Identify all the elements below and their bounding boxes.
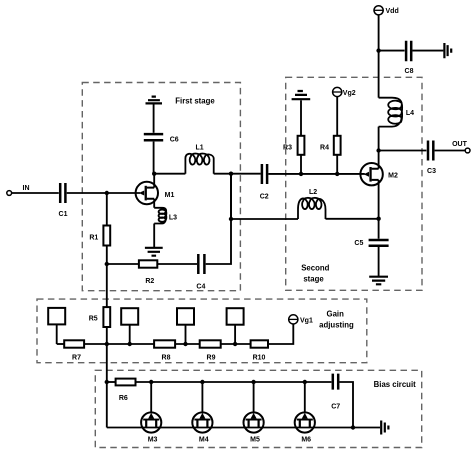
capacitor C6: [144, 134, 179, 143]
node A (input node): [105, 191, 109, 195]
svg-text:IN: IN: [23, 185, 30, 192]
capacitor C4: [196, 254, 205, 291]
wire C1 to M1 gate: [67, 192, 140, 194]
svg-text:Vg1: Vg1: [300, 317, 313, 324]
capacitor C5: [354, 240, 388, 247]
transistor M6: [295, 412, 315, 443]
ground (below C5): [369, 277, 388, 285]
node D (interstage node): [229, 172, 233, 176]
wire C7 down to rail: [340, 382, 354, 428]
wire C3 to OUT: [435, 150, 466, 152]
svg-text:C4: C4: [196, 284, 205, 291]
wire R5 down through gain wire to bias rail corner: [106, 327, 108, 428]
node L (S2 stub): [128, 342, 132, 346]
wire node G down to L4: [378, 51, 380, 98]
wire R1 to node B: [106, 246, 108, 265]
transistor M5: [244, 412, 264, 443]
ground (inverted, above R3): [292, 91, 311, 99]
svg-text:R2: R2: [145, 278, 154, 285]
gate stub M4: [201, 382, 203, 413]
svg-text:R8: R8: [162, 355, 171, 362]
svg-text:R10: R10: [253, 355, 266, 362]
capacitor C3: [427, 141, 436, 176]
wire R7 to R8: [84, 343, 154, 345]
node F (R4 bottom): [335, 172, 339, 176]
ground (rotated, right of C8): [444, 43, 451, 58]
wire R4 to gate line: [336, 155, 338, 174]
svg-text:L1: L1: [196, 145, 204, 152]
inductor L2: [298, 189, 326, 219]
wire node A down to R1: [106, 193, 108, 226]
wire Vdd down: [378, 15, 380, 51]
svg-text:R1: R1: [89, 235, 98, 242]
wire L1 to node D: [214, 173, 231, 175]
svg-text:M1: M1: [165, 192, 175, 199]
pad square S1: [48, 308, 65, 344]
terminal IN: [7, 185, 30, 195]
node T (C7 branch on rail): [351, 425, 355, 429]
resistor R1: [89, 226, 110, 246]
ground (rotated, bias rail end): [381, 421, 388, 435]
node B (R1 bottom / R2 left): [105, 262, 109, 266]
wire bias rail: [107, 427, 380, 429]
inductor L3: [154, 208, 177, 224]
node R (M5 gate): [251, 380, 255, 384]
gate stub M6: [304, 382, 306, 413]
svg-text:OUT: OUT: [452, 141, 468, 148]
node O (riser at bias wire): [105, 380, 109, 384]
wire node H to C3: [379, 150, 427, 152]
inductor L4: [379, 98, 415, 127]
svg-text:Vdd: Vdd: [386, 8, 399, 15]
wire gain row start: [57, 343, 64, 345]
resistor R5: [89, 307, 110, 327]
wire R2 to C4: [157, 263, 197, 265]
svg-text:L3: L3: [169, 215, 177, 222]
wire C2 to M2 gate: [268, 173, 365, 175]
transistor M3: [141, 412, 161, 443]
pad square S4: [227, 308, 244, 344]
node J (M2 source node): [376, 217, 380, 221]
node E (R3 bottom): [299, 172, 303, 176]
svg-text:M2: M2: [388, 173, 398, 180]
svg-text:R4: R4: [320, 145, 329, 152]
svg-text:Gain: Gain: [327, 310, 345, 319]
node N (S4 stub): [233, 342, 237, 346]
wire C5 to ground: [378, 247, 380, 276]
svg-text:R5: R5: [89, 316, 98, 323]
terminal Vdd: [374, 6, 399, 15]
wire node G to C8: [379, 50, 405, 52]
capacitor C7: [331, 374, 340, 411]
resistor R2: [139, 260, 157, 285]
transistor M2: [360, 151, 398, 219]
resistor R9: [200, 340, 221, 361]
svg-text:M3: M3: [148, 437, 158, 444]
gate stub M5: [253, 382, 255, 413]
resistor R3: [283, 136, 304, 155]
wire node B down to R5: [106, 264, 108, 307]
svg-text:R7: R7: [72, 355, 81, 362]
pad square S2: [121, 308, 138, 344]
node G (Vdd / C8 node): [376, 48, 380, 52]
transistor M4: [192, 412, 212, 443]
node C (M1 drain node): [152, 172, 156, 176]
node K (main riser on gain wire): [105, 342, 109, 346]
wire node I to L2: [231, 218, 298, 220]
svg-text:C8: C8: [405, 68, 414, 75]
svg-text:Bias circuit: Bias circuit: [374, 380, 416, 389]
first stage dashed box: [82, 83, 240, 291]
terminal OUT: [452, 141, 470, 153]
svg-text:First stage: First stage: [175, 97, 215, 106]
second stage dashed box: [286, 77, 422, 290]
wire L4 to drain node: [378, 127, 380, 151]
wire ground to R3: [300, 100, 302, 136]
svg-text:stage: stage: [303, 275, 324, 284]
wire node C to L1: [154, 173, 186, 175]
svg-text:adjusting: adjusting: [319, 321, 354, 330]
wire node J to C5: [378, 219, 380, 239]
node S (M6 gate): [303, 380, 307, 384]
ground (below L3): [145, 248, 163, 256]
svg-text:C1: C1: [59, 211, 68, 218]
svg-text:Vg2: Vg2: [343, 90, 356, 97]
wire C6 to drain node: [153, 142, 155, 174]
node I (L2 left node): [229, 217, 233, 221]
svg-text:M5: M5: [250, 437, 260, 444]
svg-text:C3: C3: [427, 168, 436, 175]
svg-text:L4: L4: [406, 110, 414, 117]
resistor R7: [64, 340, 84, 361]
wire Vg2 to R4: [336, 97, 338, 136]
terminal Vg2: [333, 87, 356, 97]
svg-text:C6: C6: [170, 137, 179, 144]
svg-text:R6: R6: [119, 395, 128, 402]
capacitor C2: [260, 164, 269, 201]
svg-text:M6: M6: [301, 437, 311, 444]
capacitor C8: [405, 41, 414, 75]
svg-text:Second: Second: [301, 264, 329, 273]
resistor R8: [154, 340, 175, 361]
wire node B to R2: [107, 263, 139, 265]
wire node D down to L2: [230, 174, 232, 219]
wire L3 to ground: [153, 224, 155, 248]
pad square S3: [177, 308, 194, 344]
node M (S3 stub): [183, 342, 187, 346]
transistor M1: [136, 174, 175, 208]
capacitor C1: [59, 183, 68, 218]
resistor R4: [320, 136, 341, 155]
wire R9 to R10: [221, 343, 251, 345]
wire bias start to R6: [107, 381, 116, 383]
wire R8 to R9: [175, 343, 200, 345]
ground (inverted, above C6): [146, 97, 163, 104]
inductor L1: [185, 145, 213, 174]
wire R6 to C7: [136, 381, 332, 383]
gate stub M3: [150, 382, 152, 413]
wire R3 to gate line: [300, 155, 302, 174]
svg-text:C5: C5: [354, 240, 363, 247]
svg-text:M4: M4: [199, 437, 209, 444]
node H (M2 drain node): [376, 148, 380, 152]
node P (M3 gate): [149, 380, 153, 384]
bias circuit dashed box: [95, 370, 421, 447]
wire node D to C2: [231, 173, 261, 175]
svg-text:R9: R9: [207, 355, 216, 362]
svg-text:L2: L2: [309, 189, 317, 196]
svg-text:C2: C2: [260, 194, 269, 201]
gain adjusting dashed box: [37, 299, 367, 363]
resistor R10: [251, 340, 268, 361]
svg-text:R3: R3: [283, 145, 292, 152]
wire IN to C1: [12, 192, 59, 194]
svg-text:C7: C7: [331, 404, 340, 411]
wire C4 to right riser: [206, 174, 231, 264]
wire ground to C6: [153, 104, 155, 132]
wire L2 to source node: [326, 218, 379, 220]
terminal Vg1: [289, 315, 313, 325]
wire C8 to ground: [413, 50, 444, 52]
wire R10 to Vg1: [268, 324, 293, 344]
resistor R6: [116, 379, 136, 402]
node Q (M4 gate): [200, 380, 204, 384]
